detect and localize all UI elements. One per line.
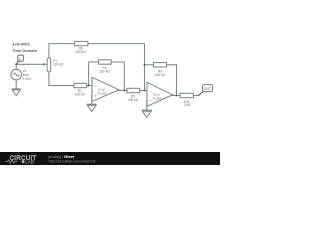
R6 labels — [75, 47, 86, 54]
watermark bar — [0, 152, 220, 165]
svg-text:TL082: TL082 — [98, 91, 107, 95]
wire R6 to summing node — [88, 44, 145, 91]
svg-text:100 kΩ: 100 kΩ — [75, 92, 86, 96]
op-amp IC1a — [92, 77, 119, 101]
R1 labels — [75, 89, 86, 96]
wire R4 to IC1a output — [111, 62, 124, 91]
IC1b plus input to ground — [146, 101, 148, 111]
ground under V1 — [12, 89, 21, 96]
op-amp IC1b — [147, 82, 173, 106]
CircuitLab logo — [5, 155, 36, 164]
wire P1 top to rail — [49, 44, 75, 58]
wiper arrow — [43, 63, 47, 66]
resistor R4 — [99, 60, 112, 64]
IC1a labels — [98, 88, 107, 96]
node flag OUT — [203, 85, 213, 92]
resistor R6 — [75, 41, 88, 45]
junction dots — [15, 63, 177, 96]
watermark text — [48, 154, 96, 164]
svg-text:100 kΩ: 100 kΩ — [53, 62, 64, 66]
svg-text:1 kΩ: 1 kΩ — [184, 103, 191, 107]
wire R5 to IC1b minus — [140, 90, 147, 92]
annotation JvG-9001 Time Domain — [12, 42, 38, 53]
ground IC1a — [87, 104, 97, 111]
resistor R1 — [74, 83, 87, 87]
V1 labels — [23, 69, 32, 81]
svg-text:LAB: LAB — [25, 159, 34, 164]
svg-text:100 kΩ: 100 kΩ — [128, 98, 139, 102]
svg-text:1 kHz: 1 kHz — [23, 77, 32, 81]
R4 feedback loop wires — [89, 62, 99, 86]
R4 labels — [100, 66, 111, 73]
potentiometer P1 — [47, 58, 51, 72]
svg-text:Time Domain: Time Domain — [12, 48, 38, 53]
wire R1 to IC1a minus — [87, 85, 92, 87]
ground IC1b — [142, 110, 152, 117]
resistor R11 — [180, 93, 193, 97]
svg-text:100 kΩ: 100 kΩ — [100, 69, 111, 73]
wire R9 to IC1b output — [167, 65, 177, 96]
P1 labels — [53, 59, 64, 66]
voltage source V1 — [11, 64, 22, 89]
IC1a plus input to ground — [91, 96, 93, 105]
svg-text:http://circuitlab.com/c/6qt7d8: http://circuitlab.com/c/6qt7d8 — [49, 159, 96, 163]
wire R11 to OUT flag — [193, 95, 198, 97]
IC1b labels — [153, 93, 162, 101]
svg-text:200 kΩ: 200 kΩ — [155, 73, 166, 77]
R9 labels — [155, 70, 166, 77]
wire IC1a output to R5 — [118, 90, 128, 92]
R9 feedback loop — [145, 64, 154, 66]
wire V1 to P1 wiper — [16, 63, 44, 65]
svg-text:TL082: TL082 — [153, 96, 162, 100]
R11 labels — [184, 100, 191, 107]
svg-text:OUT: OUT — [204, 87, 211, 91]
svg-text:jeramyj / Mixer: jeramyj / Mixer — [48, 154, 75, 159]
svg-text:JvG-9001: JvG-9001 — [12, 42, 31, 47]
wire IC1b output to R11 — [171, 95, 181, 97]
node flag IN — [16, 55, 23, 64]
svg-text:100 kΩ: 100 kΩ — [75, 50, 86, 54]
wire P1 bottom to R1 — [49, 72, 74, 86]
resistor R5 — [127, 88, 140, 92]
R5 labels — [128, 94, 139, 101]
resistor R9 — [154, 63, 167, 67]
svg-text:IN: IN — [19, 57, 22, 61]
